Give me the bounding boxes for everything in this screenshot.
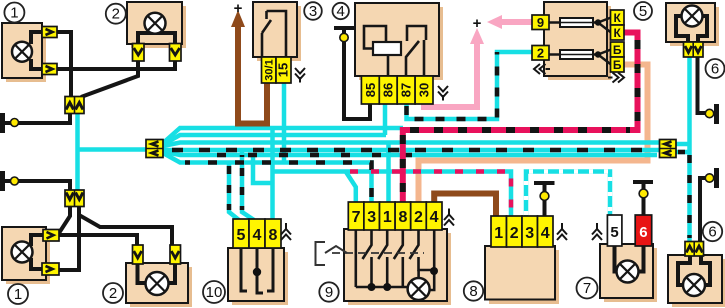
svg-text:10: 10 (206, 284, 223, 301)
svg-text:8: 8 (398, 209, 407, 226)
svg-text:85: 85 (363, 83, 378, 97)
svg-text:4: 4 (337, 3, 345, 20)
svg-text:30/1: 30/1 (264, 59, 276, 80)
svg-text:1: 1 (14, 286, 22, 303)
svg-text:1: 1 (10, 5, 18, 22)
svg-text:2: 2 (109, 285, 117, 302)
svg-text:87: 87 (399, 83, 414, 97)
svg-text:7: 7 (583, 280, 591, 297)
svg-text:3: 3 (367, 209, 376, 226)
svg-text:5: 5 (610, 224, 618, 241)
svg-text:2: 2 (112, 6, 120, 23)
svg-text:4: 4 (541, 225, 550, 242)
svg-text:7: 7 (352, 209, 361, 226)
svg-text:9: 9 (325, 284, 333, 301)
svg-text:+: + (473, 15, 482, 32)
svg-text:2: 2 (414, 209, 423, 226)
svg-text:9: 9 (537, 15, 544, 30)
svg-text:8: 8 (469, 283, 477, 300)
svg-text:2: 2 (510, 225, 519, 242)
svg-text:4: 4 (253, 227, 262, 244)
svg-text:5: 5 (237, 227, 246, 244)
svg-text:6: 6 (639, 224, 647, 241)
svg-text:+: + (234, 0, 243, 17)
svg-text:2: 2 (537, 46, 544, 61)
svg-text:86: 86 (381, 83, 396, 97)
svg-text:К: К (614, 11, 622, 25)
svg-text:Б: Б (613, 43, 622, 57)
svg-text:3: 3 (525, 225, 534, 242)
svg-text:6: 6 (711, 61, 719, 78)
svg-text:5: 5 (639, 3, 647, 20)
svg-text:1: 1 (383, 209, 392, 226)
svg-text:1: 1 (494, 225, 503, 242)
svg-text:8: 8 (269, 227, 278, 244)
svg-text:6: 6 (708, 224, 716, 241)
svg-text:К: К (614, 26, 622, 40)
svg-text:4: 4 (430, 209, 439, 226)
svg-text:15: 15 (276, 63, 291, 77)
svg-text:30: 30 (417, 83, 432, 97)
svg-text:Б: Б (613, 58, 622, 72)
svg-text:3: 3 (309, 3, 317, 20)
